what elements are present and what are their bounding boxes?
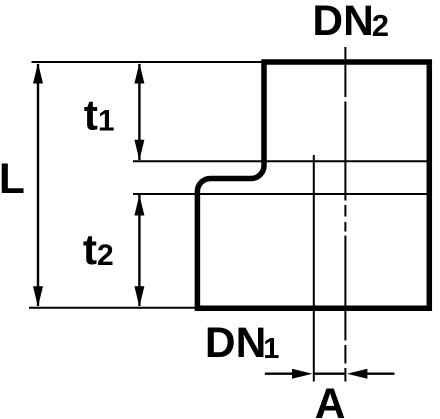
dimension t2 line — [138, 195, 140, 306]
svg-text:DN2: DN2 — [312, 0, 389, 45]
dimension A left tail — [265, 373, 294, 375]
dimension t2 arrow up — [134, 195, 144, 216]
dimension A middle segment — [314, 373, 346, 375]
dimension A arrow left — [347, 369, 368, 379]
dimension L arrow down — [33, 286, 43, 307]
dimension A right tail — [365, 373, 394, 375]
fitting body outline — [197, 62, 429, 308]
svg-text:L: L — [0, 156, 25, 203]
dimension A arrow right — [292, 369, 313, 379]
dimension t1 arrow down — [134, 140, 144, 161]
dimension t2 arrow down — [134, 286, 144, 307]
svg-text:t2: t2 — [83, 227, 114, 274]
extension line t2 top — [133, 193, 429, 195]
dimension L line — [37, 64, 39, 306]
extension line t1 bottom — [133, 160, 429, 162]
extension line bottom — [29, 307, 197, 309]
dimension t1 arrow up — [134, 63, 144, 84]
extension line A left — [313, 155, 315, 382]
centerline DN2 axis (dash-dot) — [344, 47, 346, 382]
svg-text:t1: t1 — [84, 93, 115, 140]
dimension t1 line — [138, 64, 140, 160]
svg-text:DN1: DN1 — [205, 320, 280, 367]
extension line top — [32, 61, 265, 63]
svg-text:A: A — [315, 381, 346, 419]
dimension L arrow up — [33, 63, 43, 84]
